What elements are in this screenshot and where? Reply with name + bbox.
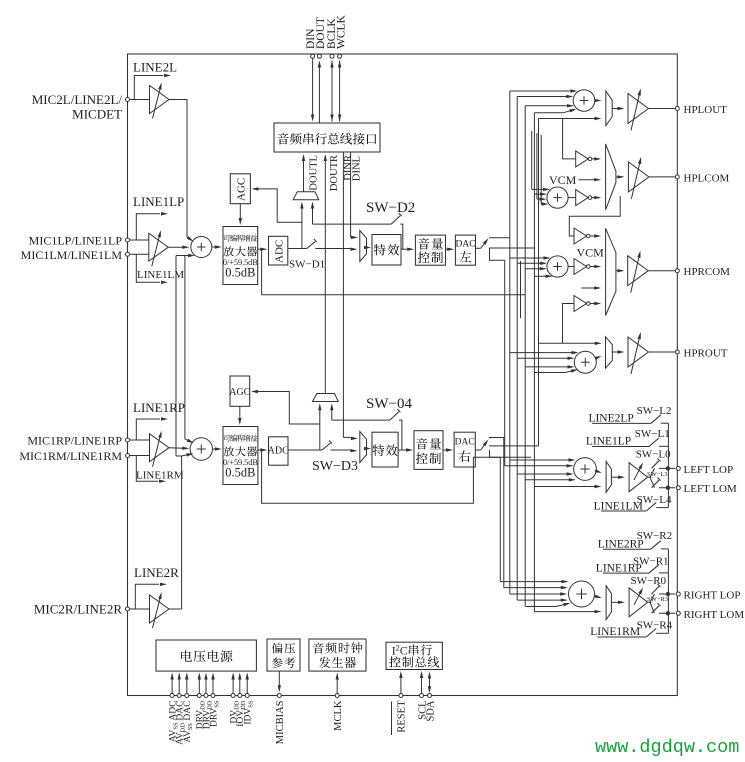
summing mixer right ADC xyxy=(190,438,212,460)
voltage supply box xyxy=(156,640,256,671)
svg-text:LEFT LOP: LEFT LOP xyxy=(684,464,734,476)
wire bus H4 xyxy=(533,113,535,612)
svg-text:AGC: AGC xyxy=(236,178,248,201)
pin HPLOUT xyxy=(675,107,679,111)
inverter HPLCOM B xyxy=(576,190,589,206)
svg-text:WCLK: WCLK xyxy=(336,14,348,49)
switch ROM arm xyxy=(652,606,660,614)
switch SW-D1 xyxy=(307,242,316,249)
svg-text:DOUTL: DOUTL xyxy=(309,155,320,191)
svg-text:HPROUT: HPROUT xyxy=(684,348,728,360)
svg-text:MIC1RP/LINE1RP: MIC1RP/LINE1RP xyxy=(27,434,122,448)
wire bus H2 xyxy=(516,97,518,601)
summing mixer LEFT LO xyxy=(574,458,597,481)
audio clock generator box xyxy=(309,639,366,671)
wire HPLOUT amp to pin xyxy=(649,108,676,110)
wire PGA right bypass tap xyxy=(262,450,501,503)
wire SW-R bracket xyxy=(667,549,669,633)
pin RIGHT LOM xyxy=(676,611,680,615)
wire DAC left throw B xyxy=(489,247,534,249)
wire PGA left to ADC xyxy=(258,248,266,250)
wire sum to HPROUT mux xyxy=(596,357,599,358)
wire bus M2 xyxy=(520,261,522,318)
wire DINR xyxy=(342,152,344,437)
pin HPLCOM xyxy=(675,175,679,179)
wire bus H5 xyxy=(538,119,540,446)
svg-text:MICBIAS: MICBIAS xyxy=(275,700,286,744)
svg-text:ADC: ADC xyxy=(268,446,289,457)
pin AVDD DAC xyxy=(177,694,181,698)
wire taps into HPLCOM mixer xyxy=(532,188,548,190)
mux HPLOUT xyxy=(606,91,612,126)
svg-text:I2C: I2C xyxy=(392,644,408,658)
wire SW-04 loopback xyxy=(332,419,390,421)
wire mux to LEFT LO amp xyxy=(611,476,623,478)
wire LINE1L amp output xyxy=(168,246,187,248)
pin MICBIAS xyxy=(277,694,281,698)
pin MIC2L/LINE2L/MICDET xyxy=(126,98,130,102)
wire to HPLCOM inverter xyxy=(563,119,576,159)
digital effects right box xyxy=(372,432,398,467)
svg-text:SW−L1: SW−L1 xyxy=(635,428,670,440)
wire volume to DAC right xyxy=(443,449,451,451)
wire inverter A to mux xyxy=(590,235,600,237)
ADC right box xyxy=(269,437,289,465)
pin BCLK xyxy=(330,54,334,58)
wire VCM stub to mux xyxy=(582,287,600,289)
node RIGHT LOP xyxy=(659,593,675,595)
wire to HPRCOM inverter C xyxy=(563,304,574,344)
svg-text:LINE2L: LINE2L xyxy=(133,60,177,75)
summing mixer HPLCOM xyxy=(547,187,568,208)
pin SDA xyxy=(428,694,432,698)
svg-text:SW−D2: SW−D2 xyxy=(366,200,415,216)
svg-text:DAC: DAC xyxy=(455,240,475,250)
svg-text:LINE2R: LINE2R xyxy=(134,565,179,580)
amplifier LEFT LO driver xyxy=(629,463,648,492)
switch SW-R3 xyxy=(648,601,652,603)
wire PGA right to ADC xyxy=(258,449,265,451)
wire sum to HPLOUT mux xyxy=(595,100,600,102)
wire sum to PGA left xyxy=(212,246,220,248)
svg-text:LINE1LP: LINE1LP xyxy=(133,194,184,209)
pin MIC1LM/LINE1LM xyxy=(126,252,130,256)
wire sum to PGA right xyxy=(213,448,220,450)
wire HPLOUT mux bottom tap xyxy=(539,118,597,120)
wire DOUTL mux right input xyxy=(312,206,314,224)
amplifier HPROUT driver xyxy=(628,337,649,367)
pin MIC1RM/LINE1RM xyxy=(126,454,130,458)
svg-text:MIC2L/LINE2L/: MIC2L/LINE2L/ xyxy=(32,92,123,107)
wire BCLK xyxy=(331,61,333,122)
wire volume to DAC left xyxy=(446,248,453,250)
wire inverter C to mux xyxy=(590,303,600,305)
switch DAC right output xyxy=(475,449,480,451)
pin AVSS ADC xyxy=(170,694,174,698)
wire bus M4 xyxy=(503,438,505,588)
inverter HPRCOM A xyxy=(574,228,587,244)
pin RESET xyxy=(399,694,403,698)
I2C serial control bus box xyxy=(386,642,442,669)
svg-text:DAC: DAC xyxy=(455,438,475,448)
DAC right box xyxy=(454,432,475,467)
summing mixer HPRCOM xyxy=(547,256,568,277)
wire sum to inverter B xyxy=(568,197,575,199)
svg-text:ADC: ADC xyxy=(274,240,286,263)
wire LINE2R amp output xyxy=(169,608,182,610)
pin DIN xyxy=(311,54,315,58)
mux HPRCOM xyxy=(606,228,616,315)
svg-text:VCM: VCM xyxy=(549,173,577,187)
svg-text:SW−L0: SW−L0 xyxy=(636,449,671,461)
pin DRVDD xyxy=(204,694,208,698)
svg-text:SDA: SDA xyxy=(425,700,436,721)
svg-text:DOUTR: DOUTR xyxy=(329,155,340,191)
wire AGC left feedback xyxy=(256,189,302,222)
wire DINR to mux xyxy=(343,436,353,438)
wire DINL xyxy=(350,152,352,237)
svg-text:VCM: VCM xyxy=(577,246,605,260)
summing mixer RIGHT LO xyxy=(569,581,595,607)
inverter HPRCOM B xyxy=(574,259,587,275)
amplifier LINE2R xyxy=(130,608,150,610)
wire mux to effects right xyxy=(367,448,370,450)
audio serial bus interface box U1 xyxy=(274,123,380,152)
svg-text:HPLOUT: HPLOUT xyxy=(684,104,728,116)
svg-text:LINE1RM: LINE1RM xyxy=(590,626,640,638)
wire SW-D3 to DAC mux xyxy=(331,449,353,451)
AGC right box xyxy=(230,376,250,406)
wire HPROUT mux top tap xyxy=(539,342,597,344)
switch SW-L0 arm xyxy=(652,461,660,469)
pin HPROUT xyxy=(675,350,679,354)
node LEFT LOP xyxy=(659,467,675,469)
svg-text:MICDET: MICDET xyxy=(72,107,122,122)
svg-text:LINE2RP: LINE2RP xyxy=(598,538,644,550)
wire bus M3 xyxy=(499,457,501,581)
node RIGHT LOM xyxy=(659,612,675,614)
wire bus C3 xyxy=(540,135,542,204)
wire inverter A to mux xyxy=(591,158,599,160)
pin AVSS DAC xyxy=(185,694,189,698)
wire DAC left throw C xyxy=(490,248,505,260)
summing mixer HPLOUT xyxy=(573,90,595,112)
amplifier HPLOUT driver xyxy=(628,94,649,124)
svg-text:SW−L2: SW−L2 xyxy=(637,405,672,417)
wire VCM to HPLCOM mux xyxy=(579,179,600,181)
wire WCLK xyxy=(339,61,341,122)
svg-text:RIGHT LOP: RIGHT LOP xyxy=(684,590,741,602)
svg-text:HPRCOM: HPRCOM xyxy=(684,266,731,278)
wire bus C1 xyxy=(531,131,533,189)
wire ADC right output xyxy=(288,449,322,451)
svg-text:MIC1LP/LINE1LP: MIC1LP/LINE1LP xyxy=(29,234,123,248)
amplifier HPRCOM driver xyxy=(628,256,649,286)
wire effects to volume right xyxy=(398,449,411,451)
wire mux to effects left xyxy=(367,247,370,249)
svg-text:SW−R0: SW−R0 xyxy=(631,575,667,587)
mux HPROUT xyxy=(606,337,613,368)
ADC left box xyxy=(269,236,288,265)
pin IDVSS xyxy=(245,694,249,698)
wire DAC left throw A xyxy=(489,237,510,239)
wire DOUTR mux right input xyxy=(331,408,333,421)
pin HPRCOM xyxy=(675,269,679,273)
pin LEFT LOM xyxy=(676,486,680,490)
svg-text:LINE2LP: LINE2LP xyxy=(588,413,633,425)
wire inverter B to mux xyxy=(590,266,600,268)
svg-text:MIC2R/LINE2R: MIC2R/LINE2R xyxy=(34,602,122,617)
wire AGC right to PGA xyxy=(239,406,241,423)
pin DVDD xyxy=(231,694,235,698)
svg-text:0.5dB: 0.5dB xyxy=(225,466,255,480)
programmable gain amplifier left xyxy=(223,227,258,285)
amplifier LINE1L xyxy=(130,239,149,241)
amplifier HPLCOM driver xyxy=(628,162,649,192)
wire PGA left bypass tap xyxy=(262,249,526,295)
svg-text:MCLK: MCLK xyxy=(333,700,344,731)
wire bus M1 xyxy=(504,260,506,466)
wire DOUTR mux left input xyxy=(319,408,321,451)
wire taps into HPLOUT mixer xyxy=(510,90,576,92)
DAC left box xyxy=(455,235,475,265)
summing mixer left ADC xyxy=(191,237,212,258)
svg-text:MIC1RM/LINE1RM: MIC1RM/LINE1RM xyxy=(19,449,122,463)
svg-text:LEFT LOM: LEFT LOM xyxy=(684,483,737,495)
wire DOUTR xyxy=(324,156,326,394)
amplifier LINE2L xyxy=(130,99,150,101)
wire DOUTL mux left input xyxy=(301,206,303,249)
chip boundary xyxy=(128,54,678,696)
summing mixer HPROUT xyxy=(574,351,596,373)
switch LOM arm xyxy=(652,480,660,488)
wire LEFT LO mux bottom input xyxy=(534,486,596,488)
svg-text:MIC1LM/LINE1LM: MIC1LM/LINE1LM xyxy=(21,248,123,262)
mux DOUTR select xyxy=(313,394,339,402)
mux DOUTL select xyxy=(293,192,319,200)
svg-text:LINE1RP: LINE1RP xyxy=(133,400,185,415)
wire DAC right throw A xyxy=(489,437,504,439)
wire taps into HPROUT mixer xyxy=(510,352,577,354)
wire taps into LEFT LO mixer xyxy=(510,459,574,461)
wire mid bus B xyxy=(184,256,186,440)
svg-text:SW−D1: SW−D1 xyxy=(289,259,325,271)
switch SW-L3 xyxy=(648,476,652,478)
wire SW-D2 loopback xyxy=(313,223,392,225)
wire mux to HPLOUT amp xyxy=(612,108,622,110)
wire SW-L bracket xyxy=(667,423,669,507)
mux LEFT LO xyxy=(606,461,611,492)
wire HPRCOM amp to pin xyxy=(648,270,675,272)
svg-text:LINE1RM: LINE1RM xyxy=(136,470,184,482)
pin MCLK xyxy=(335,694,339,698)
volume control right box xyxy=(414,431,443,470)
wire AGC right feedback xyxy=(255,392,320,425)
wire DAC right throw B xyxy=(489,445,539,447)
switch SW-04 xyxy=(390,412,399,421)
wire bus H3 xyxy=(524,106,526,607)
pin MIC1LP/LINE1LP xyxy=(126,238,130,242)
volume control left box xyxy=(415,235,445,265)
wire DOUTL xyxy=(303,156,305,192)
svg-text:AGC: AGC xyxy=(229,387,250,398)
wire HPLCOM amp to pin xyxy=(649,176,675,178)
node LEFT LOM xyxy=(659,487,675,489)
wire sum to LEFT LO mux xyxy=(596,471,600,472)
svg-text:SW−R3: SW−R3 xyxy=(647,596,668,603)
svg-text:AVSS DAC: AVSS DAC xyxy=(183,701,194,743)
wire sum to inverter B xyxy=(568,266,573,268)
svg-text:SW−04: SW−04 xyxy=(366,396,412,412)
switch DAC left output xyxy=(476,247,481,249)
bias reference box xyxy=(267,639,300,671)
mux HPLCOM xyxy=(606,144,616,210)
wire HPROUT amp to pin xyxy=(649,351,676,353)
AGC left box xyxy=(230,174,250,204)
wire DAC right throw C xyxy=(490,450,532,457)
wire inverter B to mux xyxy=(591,197,599,199)
svg-text:LINE1RP: LINE1RP xyxy=(596,562,642,574)
pin MIC1RP/LINE1RP xyxy=(126,438,130,442)
svg-text:DINL: DINL xyxy=(352,156,363,181)
svg-text:LINE1LM: LINE1LM xyxy=(137,269,184,281)
wire AGC left to PGA xyxy=(239,204,241,223)
wire MIC1R amp output xyxy=(169,447,187,450)
svg-text:HPLCOM: HPLCOM xyxy=(684,172,730,184)
wire bus C2 xyxy=(536,133,538,199)
svg-text:0.5dB: 0.5dB xyxy=(225,266,255,280)
wire DINL to mux xyxy=(351,236,353,238)
pin DRVDD xyxy=(197,694,201,698)
programmable gain amplifier right xyxy=(223,427,258,485)
pin IOVDD xyxy=(238,694,242,698)
inverter HPLCOM A xyxy=(576,151,589,167)
pin WCLK xyxy=(338,54,342,58)
wire DIN xyxy=(312,59,314,120)
mux RIGHT LO xyxy=(606,586,611,620)
pin DOUT xyxy=(317,54,321,58)
digital effects left box xyxy=(372,235,401,266)
wire mux to HPROUT amp xyxy=(612,351,622,353)
wire taps into RIGHT LO mixer xyxy=(500,581,566,583)
wire RIGHT LO mux bottom input xyxy=(534,611,596,613)
svg-text:SW−D3: SW−D3 xyxy=(312,459,358,474)
wire mux to HPRCOM amp xyxy=(616,270,623,272)
wire effects to volume left xyxy=(401,248,412,250)
pin LEFT LOP xyxy=(676,466,680,470)
svg-text:LINE1LP: LINE1LP xyxy=(586,436,631,448)
wire mid bus A xyxy=(176,255,193,257)
amplifier RIGHT LO driver xyxy=(629,588,648,617)
mux left DAC input select xyxy=(360,231,367,262)
svg-text:www.dgdqw.com: www.dgdqw.com xyxy=(595,737,739,758)
wire bus H1 xyxy=(509,91,511,594)
wire ADC left output xyxy=(288,248,307,250)
switch SW-R0 arm xyxy=(652,586,660,594)
mux right DAC input select xyxy=(360,432,367,463)
pin RIGHT LOP xyxy=(676,592,680,596)
wire mux to HPLCOM amp xyxy=(616,176,623,178)
wire sum to RIGHT LO mux xyxy=(595,596,600,598)
pin DRVSS xyxy=(211,694,215,698)
switch SW-D2 xyxy=(391,216,400,225)
svg-text:RESET: RESET xyxy=(397,700,408,733)
svg-text:SW−L3: SW−L3 xyxy=(647,471,668,478)
wire mux to RIGHT LO amp xyxy=(611,601,623,603)
pin MIC2R/LINE2R xyxy=(126,607,130,611)
inverter HPRCOM C xyxy=(574,296,587,312)
amplifier MIC1R xyxy=(130,439,150,441)
wire HPLCOM mux bottom to HPRCOM inverter xyxy=(569,196,620,236)
switch SW-D3 xyxy=(322,443,331,450)
svg-text:RIGHT LOM: RIGHT LOM xyxy=(684,609,745,621)
wire taps into HPRCOM mixer xyxy=(510,257,549,259)
wire LINE2L amp output bus xyxy=(169,100,187,238)
wire SW-D1 to DAC mux xyxy=(315,248,352,250)
wire DOUT xyxy=(318,63,320,124)
pin SCL xyxy=(420,694,424,698)
